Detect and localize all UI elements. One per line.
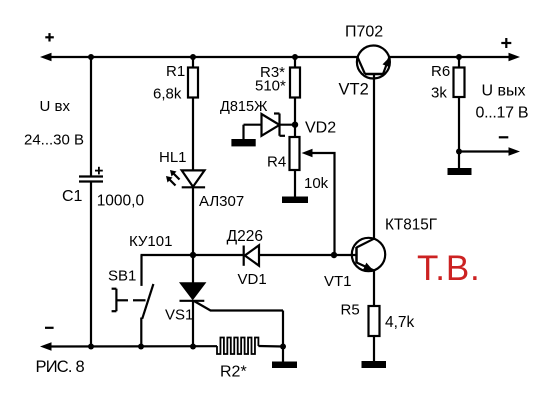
junction: top rail / R1 <box>190 54 196 60</box>
svg-text:10k: 10k <box>304 175 329 192</box>
junction: bottom rail / SB1 <box>138 344 144 350</box>
wire: VS1 gate to R2 junction <box>282 311 284 347</box>
LED HL1 <box>182 170 205 186</box>
zener diode VD2 (Д815Ж) <box>244 124 296 126</box>
junction: top rail / R6 <box>456 54 462 60</box>
output − terminal arrow <box>509 147 521 156</box>
capacitor C1 <box>90 57 92 176</box>
label: output − <box>499 136 509 138</box>
wire: VT2 base to VT1 collector <box>373 74 375 239</box>
svg-text:КТ815Г: КТ815Г <box>385 217 437 234</box>
label: input + <box>45 36 54 38</box>
ground (VD2) <box>231 139 255 146</box>
svg-text:U вх: U вх <box>40 98 71 115</box>
ground (R6) <box>458 152 460 169</box>
svg-text:VT1: VT1 <box>324 273 352 290</box>
wire: R4 wiper to VT1 base node <box>311 153 335 255</box>
svg-text:24...30 В: 24...30 В <box>24 132 84 149</box>
svg-text:VD2: VD2 <box>305 120 336 137</box>
output + terminal arrow <box>509 53 521 62</box>
wire: top rail right (VT2 emitter to output +) <box>390 56 510 58</box>
svg-text:6,8k: 6,8k <box>153 86 182 103</box>
junction: bottom rail / VS1 <box>190 344 196 350</box>
wire: control line SB1 to VD1 <box>141 254 244 256</box>
svg-text:R2*: R2* <box>220 364 247 381</box>
R4 wiper arrow <box>302 149 313 157</box>
junction: R3 / VD2 / R4 node <box>292 122 298 128</box>
diode VD1 (Д226) <box>245 245 259 265</box>
transistor VT1 (КТ815Г) <box>352 238 385 271</box>
junction: R2 / VS1 gate / ground <box>280 344 286 350</box>
svg-text:КУ101: КУ101 <box>129 233 172 250</box>
svg-text:C1: C1 <box>62 188 83 205</box>
svg-text:SB1: SB1 <box>108 268 136 285</box>
thyristor VS1 (КУ101) <box>192 255 194 283</box>
label: input − <box>45 327 54 329</box>
ground (R5) <box>373 336 375 361</box>
input − terminal arrow <box>40 342 52 351</box>
svg-text:Д226: Д226 <box>227 228 263 245</box>
wire: VD1 to VT1 base node <box>259 254 334 256</box>
svg-text:R4: R4 <box>267 154 286 171</box>
junction: VS1 anode node <box>190 252 196 258</box>
resistor R6 <box>458 57 460 68</box>
svg-text:R6: R6 <box>431 63 450 80</box>
label: output + <box>501 42 511 44</box>
svg-text:VT2: VT2 <box>339 81 369 99</box>
svg-text:АЛ307: АЛ307 <box>199 193 244 210</box>
wire: R1 to HL1 <box>192 98 194 171</box>
svg-text:510*: 510* <box>255 78 286 95</box>
transistor VT2 (П702) <box>357 46 390 79</box>
junction: top rail / C1 <box>88 54 94 60</box>
svg-text:HL1: HL1 <box>159 149 187 166</box>
ground (R2) <box>282 347 284 363</box>
svg-text:Т.В.: Т.В. <box>417 249 481 288</box>
svg-text:0...17 В: 0...17 В <box>476 105 529 122</box>
svg-text:R1: R1 <box>166 63 185 80</box>
svg-text:U вых: U вых <box>482 83 526 100</box>
resistor R5 <box>369 306 380 336</box>
wire: VT1 emitter to R5 <box>373 270 375 306</box>
wire: top rail left (input + to VT2 collector) <box>51 56 358 58</box>
resistor R1 <box>192 57 194 68</box>
ground (R4) <box>294 170 296 198</box>
svg-text:3k: 3k <box>431 85 447 102</box>
junction: output − node <box>456 149 462 155</box>
pushbutton SB1 <box>140 255 142 286</box>
svg-text:Д815Ж: Д815Ж <box>220 99 268 115</box>
svg-text:П702: П702 <box>345 24 383 41</box>
svg-text:4,7k: 4,7k <box>385 314 415 331</box>
wire: output − rail <box>459 150 509 152</box>
label: C1 polarity + <box>95 170 103 172</box>
svg-text:РИС. 8: РИС. 8 <box>36 358 85 376</box>
wire: HL1 to VS1 anode node <box>192 187 194 255</box>
svg-text:1000,0: 1000,0 <box>97 193 145 210</box>
resistor R3 <box>294 57 296 68</box>
junction: bottom rail / C1 <box>88 344 94 350</box>
wire: R2 to gate junction <box>258 345 283 348</box>
potentiometer R4 <box>294 125 296 137</box>
wire: VD2 anode to ground <box>242 125 244 140</box>
svg-text:R5: R5 <box>341 302 360 319</box>
svg-text:VD1: VD1 <box>238 271 267 288</box>
svg-text:VS1: VS1 <box>165 307 193 324</box>
wire: bottom rail <box>51 345 217 347</box>
resistor R2* (meander) <box>217 338 258 355</box>
junction: VT1 base node <box>331 252 337 258</box>
junction: top rail / R3 <box>292 54 298 60</box>
input + terminal arrow <box>40 53 52 62</box>
